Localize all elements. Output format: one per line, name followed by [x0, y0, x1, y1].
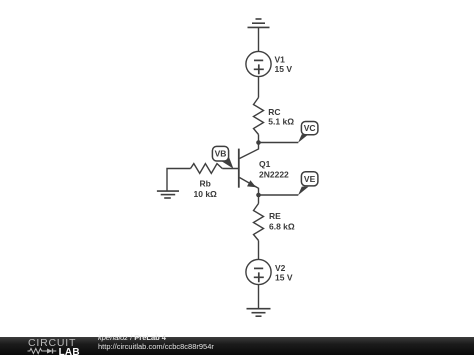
wire V2 to ground	[258, 285, 260, 309]
net flag VC	[298, 122, 318, 143]
wire V1 to RC	[258, 77, 260, 98]
transistor Q1	[239, 143, 259, 196]
svg-text:15 V: 15 V	[275, 272, 293, 282]
label Q1 value	[259, 159, 289, 179]
svg-text:RE: RE	[269, 211, 281, 221]
resistor RE	[254, 204, 264, 241]
label VE flag text	[304, 174, 316, 184]
svg-text:Rb: Rb	[200, 178, 211, 188]
svg-text:VB: VB	[215, 149, 227, 159]
ground GND2 (bottom, at V2)	[247, 309, 271, 317]
svg-text:2N2222: 2N2222	[259, 169, 289, 179]
wire RC to node VC	[258, 135, 260, 143]
svg-text:RC: RC	[268, 107, 280, 117]
ground GND1 (top, V1 negative rail)	[248, 19, 270, 27]
label Rb value	[194, 178, 218, 199]
svg-text:VE: VE	[304, 174, 316, 184]
svg-text:5.1 kΩ: 5.1 kΩ	[268, 117, 294, 127]
resistor Rb	[191, 164, 223, 174]
label V1 value	[275, 55, 293, 74]
svg-text:Q1: Q1	[259, 159, 271, 169]
node VC junction	[256, 140, 261, 145]
label VC flag text	[304, 123, 316, 133]
label VB flag text	[215, 149, 227, 159]
net flag VB	[212, 146, 233, 168]
svg-text:10 kΩ: 10 kΩ	[194, 189, 218, 199]
wire node VC to flag	[259, 142, 299, 144]
wire ground to Rb	[167, 169, 191, 192]
label V2 value	[275, 263, 293, 282]
label RE value	[269, 211, 295, 232]
wire ground to V1	[258, 27, 260, 51]
svg-text:15 V: 15 V	[275, 64, 293, 74]
svg-text:6.8 kΩ: 6.8 kΩ	[269, 222, 295, 232]
wire RE to V2	[258, 241, 260, 260]
net flag VE	[298, 172, 318, 196]
svg-text:VC: VC	[304, 123, 316, 133]
label RC value	[268, 107, 294, 127]
wire node VE to flag	[259, 194, 299, 196]
resistor RC	[254, 98, 264, 135]
node VE junction	[256, 193, 261, 198]
voltage source V2	[246, 259, 271, 284]
wire base (Rb to Q1)	[222, 168, 239, 170]
voltage source V1	[246, 51, 271, 76]
ground GND3 (left, at Rb)	[157, 191, 179, 198]
wire node VE to RE	[258, 195, 260, 204]
